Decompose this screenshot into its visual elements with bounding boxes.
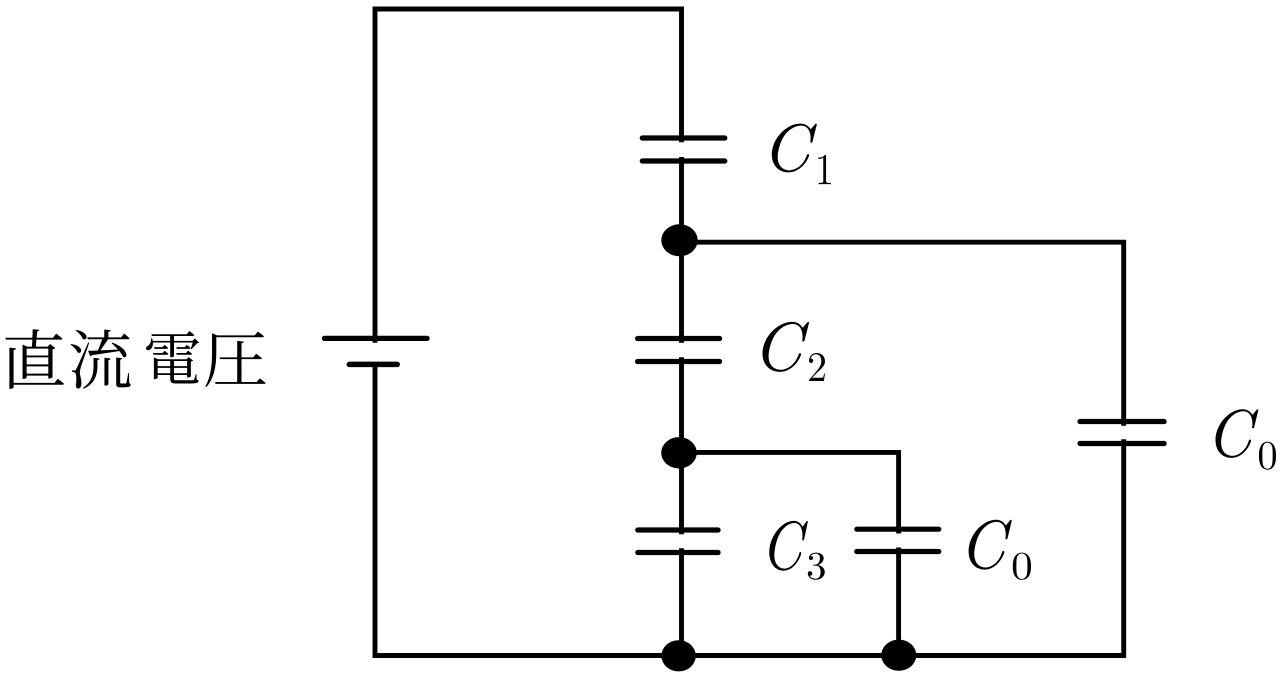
label 流 (DC voltage text, char 2)	[71, 329, 131, 388]
capacitor C1 top plate	[642, 135, 725, 140]
battery (DC source) short negative plate	[349, 362, 397, 368]
wire: parallel C0 bottom plate down to bottom rail node	[896, 548, 901, 656]
wire: battery - terminal down to bottom rail, bottom rail, up right branch to C0 bottom	[375, 364, 1124, 655]
battery (DC source) long positive plate	[324, 336, 427, 341]
label C0 (parallel with C3) subscript "0"	[1013, 553, 1031, 580]
label C3 subscript "3"	[808, 553, 825, 580]
label C1 subscript "1"	[818, 155, 831, 184]
capacitor C0 (right branch) top plate	[1080, 419, 1164, 424]
label C1 "C"	[772, 124, 817, 173]
capacitor C3 top plate	[638, 527, 718, 532]
capacitor C2 bottom plate	[638, 359, 720, 364]
label C3 "C"	[769, 521, 808, 571]
label 圧 (DC voltage text, char 4)	[205, 332, 265, 387]
wire: node A horizontal to right branch, down to right C0 top plate	[682, 242, 1124, 426]
wire: C2 bottom plate through node B down to C3 top plate	[679, 357, 684, 534]
label 電 (DC voltage text, char 3)	[146, 331, 199, 384]
label C0 (right branch) "C"	[1215, 409, 1258, 458]
node D: bottom rail junction below parallel C0	[881, 640, 916, 671]
node A: junction between C1 and C2	[661, 224, 697, 256]
label 直 (DC voltage text, char 1)	[5, 329, 64, 389]
node B: junction between C2 and C3	[661, 437, 697, 468]
wire: C3 bottom plate down to bottom rail node	[679, 548, 684, 655]
capacitor C0 (parallel with C3) top plate	[857, 527, 939, 532]
label C0 (right branch) subscript "0"	[1259, 442, 1276, 470]
wire: top loop from battery + terminal up, across, down to C1	[375, 9, 682, 343]
capacitor C0 (parallel with C3) bottom plate	[857, 549, 939, 554]
node C: bottom rail junction below C3	[661, 640, 695, 671]
label C2 "C"	[763, 322, 809, 372]
wire: node B horizontal to middle branch, down to parallel C0 top plate	[682, 452, 899, 533]
capacitor C2 top plate	[638, 336, 720, 341]
capacitor C3 bottom plate	[638, 550, 718, 555]
label C2 subscript "2"	[809, 353, 825, 381]
capacitor C1 bottom plate	[642, 158, 725, 163]
label C0 (parallel with C3) "C"	[969, 520, 1012, 570]
capacitor C0 (right branch) bottom plate	[1080, 441, 1164, 446]
wire: C1 bottom plate through node A down to C2 top plate	[679, 157, 684, 343]
